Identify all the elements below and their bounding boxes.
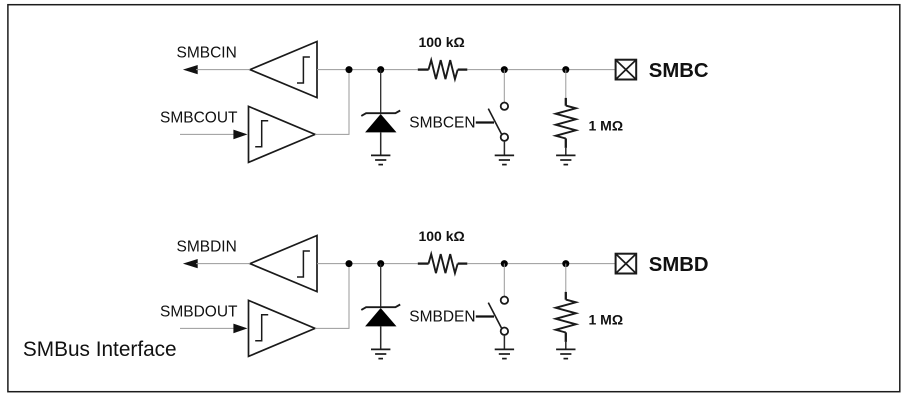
node DC (1 Mohm junction) bbox=[562, 66, 569, 73]
svg-text:SMBCEN: SMBCEN bbox=[409, 115, 475, 132]
wire switch SC1 to ground bbox=[503, 141, 505, 156]
ground (switch SD1) bbox=[495, 349, 514, 358]
arrow SMBDIN bbox=[183, 259, 198, 268]
svg-text:SMBDEN: SMBDEN bbox=[409, 309, 475, 326]
svg-text:SMBC: SMBC bbox=[649, 60, 709, 82]
svg-text:100 kΩ: 100 kΩ bbox=[418, 228, 464, 244]
wire node BD to zener DD1 bbox=[380, 264, 382, 308]
SMBCEN link line bbox=[476, 121, 494, 123]
switch SC1 lever bbox=[488, 109, 501, 135]
node BC (zener junction) bbox=[377, 66, 384, 73]
node BD (zener junction) bbox=[377, 260, 384, 267]
zener diode DD1 bbox=[361, 305, 400, 327]
resistor RD1 100 kOhm bbox=[418, 254, 468, 273]
node CD (switch junction) bbox=[501, 260, 508, 267]
switch SD1 bottom contact bbox=[501, 328, 508, 335]
arrow SMBCOUT bbox=[233, 130, 247, 140]
svg-text:1 MΩ: 1 MΩ bbox=[589, 311, 624, 327]
wire RC2 to ground bbox=[565, 148, 567, 156]
svg-text:SMBDOUT: SMBDOUT bbox=[160, 304, 238, 321]
wire switch SD1 to ground bbox=[503, 335, 505, 350]
switch SC1 bottom contact bbox=[501, 134, 508, 141]
ground (zener DC1) bbox=[371, 155, 390, 164]
hysteresis symbol UC2 bbox=[255, 121, 268, 147]
pad SMBC bbox=[616, 60, 637, 80]
svg-text:SMBus Interface: SMBus Interface bbox=[23, 338, 177, 361]
hysteresis symbol UD2 bbox=[255, 315, 268, 341]
wire SMBCOUT input bbox=[180, 133, 235, 135]
arrow SMBDOUT bbox=[233, 324, 247, 334]
buffer UD2 (SMBDOUT driver) bbox=[249, 300, 316, 356]
wire node CC to switch SC1 bbox=[503, 70, 505, 103]
wire node BC to zener DC1 bbox=[380, 70, 382, 114]
svg-text:100 kΩ: 100 kΩ bbox=[418, 34, 464, 50]
hysteresis symbol UD1 bbox=[297, 251, 310, 277]
svg-text:SMBCIN: SMBCIN bbox=[177, 45, 237, 62]
svg-text:1 MΩ: 1 MΩ bbox=[589, 117, 624, 133]
wire UD1 to resistor RD1 bbox=[317, 263, 418, 265]
wire zener DC1 to ground bbox=[380, 132, 382, 155]
wire zener DD1 to ground bbox=[380, 326, 382, 349]
SMBDEN link line bbox=[476, 315, 494, 317]
wire SMBCIN arrow to UC1 bbox=[196, 69, 250, 71]
switch SD1 top contact bbox=[501, 297, 508, 304]
buffer UD1 (SMBDIN receiver) bbox=[250, 236, 317, 292]
node CC (switch junction) bbox=[501, 66, 508, 73]
wire node DD to resistor RD2 bbox=[565, 264, 567, 292]
node AC (buffer junction) bbox=[346, 66, 353, 73]
pad SMBD bbox=[616, 254, 637, 274]
hysteresis symbol UC1 bbox=[297, 57, 310, 83]
ground (zener DD1) bbox=[371, 349, 390, 358]
wire SMBDOUT input bbox=[180, 327, 235, 329]
wire node CD to switch SD1 bbox=[503, 264, 505, 297]
svg-text:SMBDIN: SMBDIN bbox=[177, 239, 237, 256]
buffer UC2 (SMBCOUT driver) bbox=[249, 106, 316, 162]
switch SC1 top contact bbox=[501, 103, 508, 110]
ground (RD2) bbox=[556, 349, 575, 358]
resistor RC1 100 kOhm bbox=[418, 60, 468, 79]
wire UC2 output to node AC bbox=[315, 70, 349, 135]
zener diode DC1 bbox=[361, 111, 400, 133]
node AD (buffer junction) bbox=[346, 260, 353, 267]
wire RD2 to ground bbox=[565, 342, 567, 350]
wire RC1 to pad SMBC bbox=[467, 69, 615, 71]
arrow SMBCIN bbox=[183, 65, 198, 74]
switch SD1 lever bbox=[488, 303, 501, 329]
wire node DC to resistor RC2 bbox=[565, 70, 567, 98]
wire SMBDIN arrow to UD1 bbox=[196, 263, 250, 265]
svg-text:SMBCOUT: SMBCOUT bbox=[160, 110, 238, 127]
wire UC1 to resistor RC1 bbox=[317, 69, 418, 71]
wire RD1 to pad SMBD bbox=[467, 263, 615, 265]
resistor RD2 1 MOhm bbox=[556, 292, 576, 342]
ground (RC2) bbox=[556, 155, 575, 164]
buffer UC1 (SMBCIN receiver) bbox=[250, 42, 317, 98]
ground (switch SC1) bbox=[495, 155, 514, 164]
resistor RC2 1 MOhm bbox=[556, 98, 576, 148]
wire UD2 output to node AD bbox=[315, 264, 349, 329]
node DD (1 Mohm junction) bbox=[562, 260, 569, 267]
svg-text:SMBD: SMBD bbox=[649, 254, 709, 276]
